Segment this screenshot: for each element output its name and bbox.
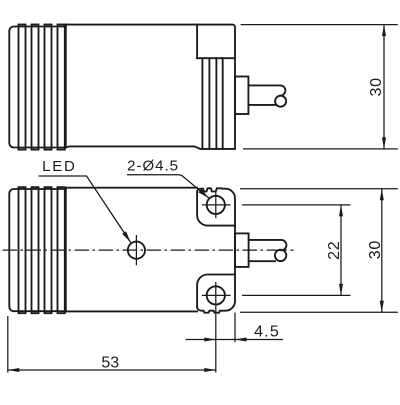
svg-text:LED: LED — [42, 158, 77, 175]
svg-text:30: 30 — [368, 77, 385, 96]
svg-text:53: 53 — [101, 354, 119, 371]
svg-text:2-Ø4.5: 2-Ø4.5 — [127, 157, 179, 174]
svg-text:4.5: 4.5 — [254, 324, 280, 341]
svg-text:30: 30 — [367, 240, 384, 259]
svg-text:22: 22 — [326, 240, 343, 259]
